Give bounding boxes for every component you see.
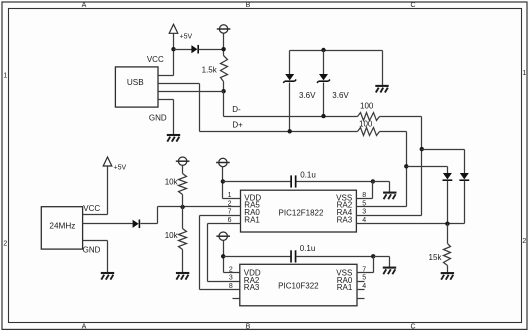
svg-text:VCC: VCC — [147, 55, 164, 64]
node 1.5k/USB/D- junction — [221, 89, 225, 93]
diode D4 (D+ to RA3) — [443, 173, 452, 179]
wire X1 VCC — [107, 167, 109, 215]
resistor 15k — [447, 224, 449, 244]
svg-text:GND: GND — [149, 113, 167, 122]
svg-text:C: C — [410, 2, 415, 9]
svg-text:3: 3 — [229, 275, 233, 282]
node zener/D- junction — [321, 114, 325, 118]
power +5V symbol — [169, 24, 178, 33]
wire U1 pin3 RA4 — [357, 215, 422, 217]
svg-text:2: 2 — [3, 241, 7, 248]
ground (USB) — [167, 134, 180, 136]
svg-text:D+: D+ — [232, 120, 243, 129]
wire D+ branch to diode — [407, 166, 448, 168]
svg-text:RA1: RA1 — [244, 216, 260, 225]
svg-text:1: 1 — [522, 70, 526, 77]
wire X1 GND — [83, 240, 108, 242]
node VDD1/cap junction — [221, 179, 225, 183]
wire D- rail — [224, 116, 358, 118]
wire D- riser to RA4 — [421, 117, 423, 216]
wire U1 pin8 VSS — [357, 198, 373, 200]
svg-text:3: 3 — [362, 209, 366, 216]
svg-text:D-: D- — [232, 105, 241, 114]
wire U2 pin2 VDD — [224, 272, 240, 274]
svg-text:+5V: +5V — [180, 34, 193, 41]
node rail/zener junction — [321, 48, 325, 52]
svg-text:10k: 10k — [165, 178, 179, 187]
zener D3 3.6V (D-) — [323, 51, 325, 75]
resistor 10k (pulldown) — [179, 229, 187, 250]
wire to diode D1 — [174, 49, 192, 51]
svg-text:100: 100 — [360, 101, 374, 110]
svg-text:24MHz: 24MHz — [49, 222, 75, 231]
svg-text:0.1u: 0.1u — [300, 244, 316, 253]
wire U1 pin5 RA2 — [357, 206, 407, 208]
ground (U1 VSS) — [383, 192, 396, 194]
wire D+ riser — [199, 84, 201, 132]
svg-text:PIC12F1822: PIC12F1822 — [279, 209, 324, 218]
svg-text:A: A — [82, 324, 87, 331]
diode D5 (D- to RA3) — [460, 173, 469, 179]
node +5V junction — [171, 47, 175, 51]
svg-text:B: B — [246, 2, 251, 9]
power symbol (U1 VDD) — [219, 158, 227, 166]
svg-text:8: 8 — [362, 192, 366, 199]
wire USB pin2 (D+) — [159, 83, 200, 85]
wire VCC riser — [173, 50, 175, 76]
wire rail to ground — [382, 51, 384, 86]
wire USB VCC pin — [159, 75, 174, 77]
wire U1 pin4 RA3 — [357, 223, 465, 225]
wire D- branch to diode — [422, 149, 465, 151]
connector USB — [115, 67, 158, 107]
resistor R 100 (D+ line) — [358, 128, 380, 136]
node RA3/15k junction — [445, 222, 449, 226]
power +5V symbol (X1) — [103, 157, 112, 166]
wire USB GND pin — [159, 99, 174, 101]
svg-text:RA3: RA3 — [244, 283, 260, 292]
diode D1 — [191, 45, 197, 53]
svg-text:0.1u: 0.1u — [300, 171, 316, 180]
svg-text:1.5k: 1.5k — [202, 66, 218, 75]
power symbol (bus) — [219, 25, 227, 33]
wire X1 OUT — [83, 223, 133, 225]
svg-text:3.6V: 3.6V — [332, 91, 349, 100]
wire zener top rail — [290, 50, 383, 52]
node cap/VSS junction — [371, 179, 375, 183]
svg-text:A: A — [82, 2, 87, 9]
svg-text:5: 5 — [362, 275, 366, 282]
ground (X1) — [101, 272, 114, 274]
wire U1 RA0 to U2 RA3 — [200, 215, 241, 217]
node diode/1.5k junction — [221, 47, 225, 51]
ground (zener rail) — [375, 85, 388, 87]
diode D6 (clock) — [133, 220, 139, 228]
capacitor C1 0.1u — [223, 181, 291, 183]
wire D- drop — [223, 92, 225, 117]
svg-text:15k: 15k — [429, 253, 443, 262]
ground (15k) — [441, 272, 454, 274]
svg-text:1: 1 — [3, 73, 7, 80]
wire U1 pin1 VDD — [223, 198, 241, 200]
svg-text:RA1: RA1 — [337, 283, 353, 292]
wire USB pin3 (D-) — [159, 91, 224, 93]
oscillator X1 24MHz — [41, 207, 82, 249]
svg-text:+5V: +5V — [114, 164, 127, 171]
svg-text:USB: USB — [127, 78, 144, 87]
svg-text:3.6V: 3.6V — [299, 91, 316, 100]
ground (U2 VSS) — [383, 267, 396, 269]
svg-text:100: 100 — [359, 119, 373, 128]
svg-text:1: 1 — [228, 192, 232, 199]
node VDD2/cap junction — [221, 254, 225, 258]
ground (10k) — [176, 272, 189, 274]
svg-text:10k: 10k — [165, 231, 179, 240]
resistor 10k (pullup) — [179, 174, 187, 195]
svg-text:7: 7 — [228, 209, 232, 216]
svg-text:C: C — [410, 324, 415, 331]
wire U1 RA1 to U2 RA2 — [208, 223, 241, 225]
power symbol (10k pullup) — [178, 157, 186, 165]
svg-text:PIC10F322: PIC10F322 — [278, 282, 319, 291]
op IC U2 PIC10F322 — [240, 264, 357, 306]
resistor 1.5k — [221, 56, 228, 82]
power symbol (U2 VDD) — [219, 232, 227, 240]
capacitor C2 0.1u — [224, 256, 291, 258]
svg-text:VCC: VCC — [83, 204, 100, 213]
wire U2 pin7 VSS — [357, 272, 374, 274]
resistor R 100 (D- line) — [358, 113, 380, 121]
node cap2/VSS junction — [371, 254, 375, 258]
node D- branch — [420, 147, 424, 151]
svg-text:GND: GND — [83, 246, 101, 255]
U2 unconnected pin stubs — [357, 281, 365, 283]
wire D+ rail — [200, 131, 358, 133]
node 10k junction — [180, 205, 184, 209]
svg-text:B: B — [246, 324, 251, 331]
svg-text:RA3: RA3 — [337, 216, 353, 225]
wire clock to RA5 — [158, 206, 241, 208]
node zener/D+ junction — [288, 129, 292, 133]
node D+ branch — [404, 164, 408, 168]
wire D+ riser to RA2 — [406, 132, 408, 207]
zener D2 3.6V (D+) — [289, 51, 291, 75]
wire D1 cathode to 1.5k node — [199, 49, 224, 51]
op IC U1 PIC12F1822 — [241, 190, 357, 232]
svg-text:2: 2 — [522, 238, 526, 245]
